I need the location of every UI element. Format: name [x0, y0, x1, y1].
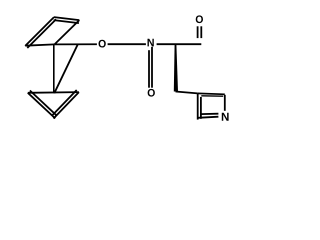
ring left edge double bond inner line [200, 97, 202, 119]
bond O to N [108, 43, 146, 45]
bond cage bottom edge (A to D) [25, 44, 54, 45]
C=O aldehyde double bond left line [197, 26, 199, 38]
atom label N (central nitrogen) [148, 39, 154, 47]
atom label O (aldehyde oxygen) [196, 15, 203, 23]
ring left edge double bond outer line [197, 93, 199, 119]
ring right edge bond [224, 95, 226, 111]
bond D to ester O [54, 43, 97, 45]
C=O aldehyde double bond right line [200, 26, 202, 38]
cage left edge double bond inner line [27, 19, 56, 48]
ring top edge bond inner line [201, 95, 223, 97]
triangle left edge double bond inner line [30, 91, 57, 116]
cage diagonal bridge bond [54, 44, 78, 93]
bond N to stereocenter to aldehyde carbon [157, 43, 202, 45]
N=O double bond right line [151, 47, 153, 88]
cage top edge double bond outer line [54, 17, 79, 20]
atom label N (ring nitrogen) [222, 113, 229, 121]
triangle right edge double bond inner line [52, 90, 77, 116]
cage left edge double bond outer line [25, 17, 54, 46]
cage top edge double bond inner line [54, 20, 79, 23]
cage right edge bond [55, 20, 80, 44]
ring C=N double bond inner line [201, 113, 219, 115]
bond CH2 to ring top-left carbon [176, 92, 198, 94]
N=O double bond left line [148, 50, 150, 87]
stereo wedge bond [174, 45, 178, 92]
triangle right edge double bond outer line [54, 92, 79, 118]
triangle top edge bond [28, 91, 79, 94]
atom label O (ester oxygen) [99, 40, 106, 48]
cage vertical bridge bond [53, 44, 55, 93]
triangle left edge double bond outer line [28, 93, 55, 119]
ring top edge bond outer line [198, 92, 225, 95]
atom label O (N-oxide oxygen) [148, 89, 155, 97]
ring C=N double bond outer line [198, 117, 219, 118]
